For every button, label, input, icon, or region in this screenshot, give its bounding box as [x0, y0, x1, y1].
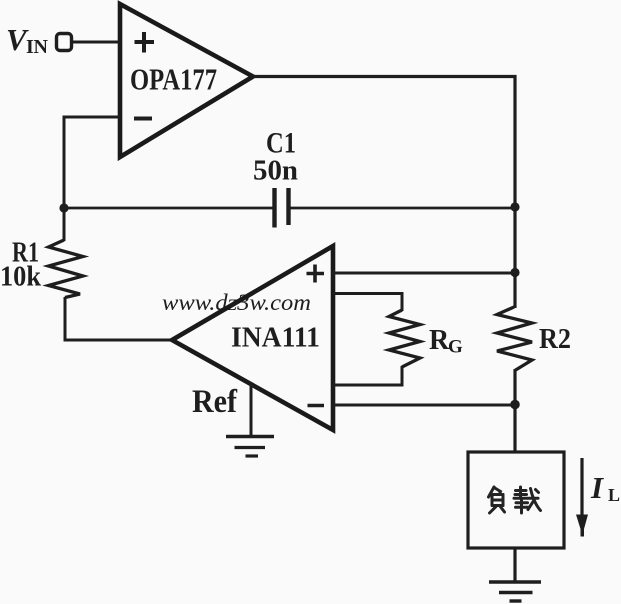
svg-text:50n: 50n	[253, 156, 298, 187]
label OPA177 plus input	[135, 32, 155, 53]
resistor R1	[49, 240, 84, 298]
svg-text:INA111: INA111	[231, 322, 320, 354]
load box	[468, 452, 564, 548]
wire VIN to op-amp + input	[72, 41, 121, 44]
负	[489, 487, 495, 497]
wire C1 row right	[289, 207, 515, 210]
svg-text:L: L	[608, 485, 620, 505]
载	[519, 487, 522, 498]
svg-text:OPA177: OPA177	[130, 62, 217, 97]
label RG	[429, 325, 463, 358]
wire C1 row left	[64, 207, 274, 210]
wire INA111 minus input to right rail	[333, 404, 515, 407]
capacitor C1	[275, 188, 289, 228]
wire rail below R2	[513, 370, 516, 452]
node junction minus	[510, 400, 520, 410]
node junction plus	[510, 268, 519, 277]
op-amp U1 OPA177	[120, 4, 253, 157]
svg-text:R: R	[429, 325, 450, 356]
wire op-amp minus feedback	[64, 117, 120, 208]
svg-text:IN: IN	[26, 36, 49, 58]
svg-text:R2: R2	[539, 323, 571, 355]
wire INA111 plus input to right rail	[333, 272, 515, 275]
wire rail above R2	[513, 207, 516, 308]
wire Ref pin	[250, 384, 253, 436]
svg-text:10k: 10k	[0, 262, 41, 293]
op-amp U2 INA111	[172, 246, 333, 430]
resistor RG	[389, 310, 420, 367]
IL arrow	[576, 458, 588, 537]
label 负载	[489, 487, 541, 513]
label INA111 plus input	[307, 265, 325, 283]
node VIN input terminal	[57, 34, 72, 51]
label OPA177 minus input	[134, 117, 152, 121]
wire R1 to INA111 apex	[65, 297, 172, 340]
label IL	[590, 470, 620, 505]
resistor R2	[497, 307, 532, 371]
node junction left	[59, 203, 68, 212]
svg-text:G: G	[448, 337, 463, 358]
ground bottom	[489, 582, 541, 601]
label VIN	[6, 22, 49, 58]
ground Ref	[226, 437, 274, 457]
wire RG top	[333, 294, 402, 312]
wire load to ground	[513, 548, 516, 582]
wire RG bottom	[333, 366, 402, 385]
wire op-amp output to right rail	[253, 77, 515, 209]
svg-text:Ref: Ref	[192, 384, 238, 420]
wire junction to R1	[63, 208, 66, 241]
label INA111 minus input	[308, 404, 325, 408]
node junction right top	[510, 202, 519, 211]
svg-text:I: I	[590, 470, 604, 505]
